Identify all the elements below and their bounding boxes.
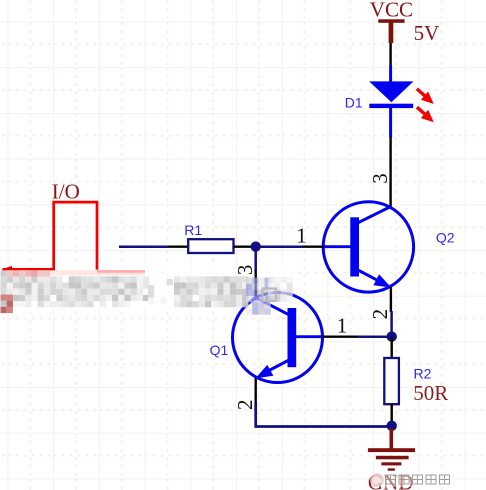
svg-text:VCC: VCC [370, 0, 413, 21]
Q1 base pin [322, 336, 358, 338]
transistor Q1 [233, 293, 323, 383]
svg-text:50R: 50R [413, 381, 448, 405]
ground GND [368, 428, 415, 471]
R2 bottom pin [391, 404, 393, 422]
svg-text:D1: D1 [345, 95, 363, 111]
wire junction down to Q1 collector [254, 248, 257, 270]
5V value label [414, 21, 440, 45]
pin number 3 (Q2 collector) [368, 173, 392, 184]
wire Q1 base to junction [358, 335, 388, 338]
watermark white wash strip [0, 262, 292, 308]
power symbol VCC [378, 19, 404, 43]
junction node R2 / ground [387, 421, 397, 431]
svg-text:5V: 5V [414, 21, 440, 45]
watermark bottom-right wash [374, 471, 456, 488]
wire VCC to D1 (pin segment) [389, 43, 391, 66]
Q1 emitter pin [254, 378, 256, 403]
resistor R2 [384, 358, 399, 404]
watermark copyright blob [370, 473, 384, 487]
watermark text 硬件笔记本 [386, 475, 450, 484]
GND net label [368, 471, 414, 490]
R1 left pin [168, 245, 189, 247]
pin number 2 (Q1 emitter) [233, 400, 257, 411]
svg-text:Q2: Q2 [436, 229, 455, 245]
watermark glyph box (over Q1) [263, 289, 277, 302]
Q1 collector pin [254, 270, 256, 298]
D1 designator [345, 95, 363, 111]
Q2 base pin [302, 245, 324, 247]
wire Q2 emitter to junction [390, 311, 393, 337]
pin number 2 (Q2 emitter) [368, 309, 392, 320]
wire D1 to Q2 collector (pin) [389, 138, 391, 208]
svg-text:3: 3 [233, 265, 257, 276]
junction node Q2 emitter / Q1 base / R2 [387, 331, 397, 341]
svg-text:3: 3 [368, 173, 392, 184]
LED light emission arrows [417, 89, 434, 122]
R1 designator [184, 222, 202, 238]
svg-text:Q1: Q1 [210, 342, 229, 358]
50R value label [413, 381, 448, 405]
R2 top pin [391, 337, 393, 359]
R2 designator [414, 365, 432, 381]
wire Q1 emitter to ground rail [256, 403, 392, 427]
LED D1 [369, 81, 413, 137]
resistor R1 [188, 239, 233, 253]
pin number 3 (Q1 collector) [233, 265, 257, 276]
svg-text:1: 1 [296, 224, 307, 248]
wire into LED top [389, 66, 392, 83]
svg-text:I/O: I/O [52, 179, 80, 203]
Q1 designator [210, 342, 229, 358]
I/O net label [52, 179, 80, 203]
svg-text:2: 2 [233, 400, 257, 411]
svg-text:2: 2 [368, 309, 392, 320]
VCC net label [370, 0, 413, 21]
svg-text:R2: R2 [414, 365, 432, 381]
transistor Q2 [323, 202, 413, 292]
svg-text:1: 1 [337, 313, 348, 337]
Q2 emitter pin [390, 287, 392, 312]
I/O pulse waveform [2, 202, 146, 275]
junction node at R1/Q2/Q1 [251, 241, 261, 251]
svg-text:R1: R1 [184, 222, 202, 238]
pin number 1 (Q1 base) [337, 313, 348, 337]
Q2 designator [436, 229, 455, 245]
wire input to R1 [119, 245, 168, 248]
pin number 1 (Q2 base) [296, 224, 307, 248]
wire junction to Q2 base [251, 245, 303, 248]
R1 right pin [234, 245, 251, 247]
watermark mosaic strip [1, 270, 293, 314]
